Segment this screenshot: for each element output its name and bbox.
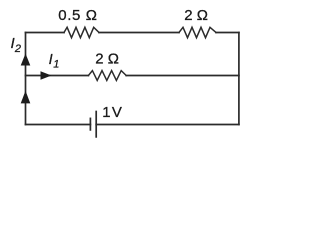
wire middle branch right bbox=[126, 75, 239, 77]
wire battery to bottom-left bbox=[26, 124, 91, 126]
battery B1 long plate bbox=[95, 112, 97, 137]
resistor R1 0.5 ohm zigzag bbox=[64, 27, 99, 37]
svg-text:2 Ω: 2 Ω bbox=[184, 7, 208, 24]
wire top-left segment bbox=[26, 32, 65, 34]
svg-text:2 Ω: 2 Ω bbox=[95, 51, 119, 68]
wire top-right segment bbox=[216, 32, 239, 34]
wire middle branch left bbox=[26, 75, 89, 77]
wire top-middle segment bbox=[99, 32, 179, 34]
current arrow I2 upper on left wire bbox=[21, 54, 31, 66]
wire bottom-right to battery bbox=[96, 124, 239, 126]
svg-text:2: 2 bbox=[14, 43, 21, 55]
current arrow lower on left wire bbox=[21, 91, 31, 104]
svg-text:1V: 1V bbox=[102, 104, 123, 121]
current arrow I1 on middle branch bbox=[41, 71, 52, 80]
svg-text:1: 1 bbox=[53, 59, 59, 71]
resistor R3 2 ohm zigzag bbox=[88, 71, 126, 81]
svg-text:I: I bbox=[49, 52, 53, 68]
wire left side bbox=[25, 33, 27, 125]
svg-text:0.5 Ω: 0.5 Ω bbox=[58, 7, 97, 24]
resistor R2 2 ohm zigzag bbox=[179, 27, 216, 37]
wire right side bbox=[238, 33, 240, 125]
battery B1 short plate bbox=[89, 118, 91, 129]
